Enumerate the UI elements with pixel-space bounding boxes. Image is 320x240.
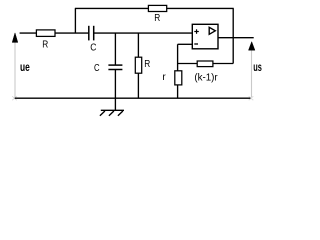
op-amp triangle symbol (209, 27, 215, 34)
svg-text:ue: ue (20, 62, 30, 74)
port marker x left (12, 96, 17, 100)
resistor (k-1)r feedback (197, 61, 213, 67)
wire left vertical of feedback (74, 8, 76, 33)
wire top feedback (75, 7, 234, 9)
input arrow ue (12, 33, 18, 43)
resistor R3 shunt (135, 57, 141, 73)
capacitor C1 series plates (89, 26, 94, 41)
wire inverting input (178, 43, 193, 45)
svg-text:us: us (253, 62, 262, 74)
svg-text:R: R (144, 59, 150, 70)
resistor R2 input (36, 30, 55, 37)
capacitor C2 shunt plates (108, 65, 122, 69)
port marker x right (249, 96, 254, 100)
svg-text:C: C (94, 63, 100, 74)
wire (k-1)r row (178, 63, 234, 65)
svg-text:C: C (90, 43, 96, 54)
svg-text:R: R (154, 13, 160, 24)
ground (100, 110, 124, 115)
wire output-port gray (251, 50, 253, 97)
op-amp U1 body (192, 24, 218, 49)
op-amp plus sign (194, 29, 199, 34)
wire shunt R vertical (137, 33, 139, 98)
svg-text:(k-1)r: (k-1)r (194, 72, 218, 83)
wire shunt C vertical lower to ground (114, 70, 116, 111)
resistor r feedback lower (175, 71, 182, 85)
op-amp minus sign (194, 43, 198, 45)
wire bottom rail (15, 97, 251, 99)
wire shunt C vertical upper (114, 33, 116, 65)
svg-text:R: R (42, 40, 48, 51)
wire input-port gray (14, 42, 16, 97)
wire feedback node vertical (177, 44, 179, 98)
wire main input row (20, 32, 89, 34)
output arrow us (249, 42, 255, 51)
resistor R1 top feedback (148, 5, 166, 11)
wire main row cap to op-amp (94, 32, 193, 34)
wire right vertical output node (232, 8, 234, 63)
wire op-amp output (218, 37, 254, 39)
